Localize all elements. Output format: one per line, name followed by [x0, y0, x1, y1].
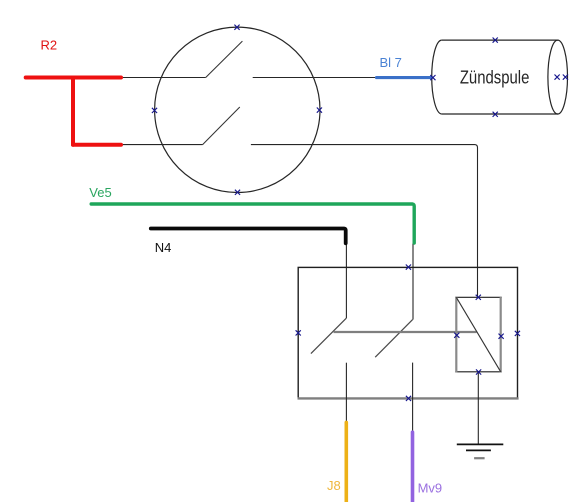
pin marker: relay coil bottom: [476, 369, 481, 374]
Zündspule ignition coil cylinder body top line: [441, 39, 558, 41]
wire R2 (red) vertical: [71, 78, 75, 145]
grey wire from K1 blade to relay coil: [334, 331, 477, 333]
pin marker: coil bottom: [493, 112, 498, 117]
wire bottom row: red R2 lower terminal to ignition-switch lower left contact: [123, 144, 203, 146]
wire Bl7 (blue) to ignition coil: [377, 76, 432, 79]
pin marker: relay box bottom: [406, 396, 411, 401]
pin marker: coil top: [493, 38, 498, 43]
Zündspule cylinder body bottom line: [441, 113, 558, 115]
switch blade lower contact (inside circle, bottom): [203, 107, 240, 145]
pin marker: ignition switch bottom: [235, 190, 240, 195]
wire Ve5 (green) horizontal and corner down: [91, 204, 414, 243]
svg-text:Bl 7: Bl 7: [380, 55, 402, 70]
relay switch K1 bottom contact wire down to J8: [345, 363, 347, 423]
relay switch K2 blade diagonal: [375, 320, 412, 358]
pin marker: relay box top: [406, 265, 411, 270]
pin marker: coil right outer: [563, 75, 568, 80]
wire: vertical from N4 wire down into relay box to switch K1 top contact: [345, 243, 347, 318]
svg-text:Zündspule: Zündspule: [460, 67, 530, 87]
svg-text:N4: N4: [155, 240, 172, 255]
switch blade upper contact (inside circle, top): [206, 41, 243, 77]
wire: relay coil bottom to ground: [477, 372, 479, 445]
pin marker: ignition switch top: [234, 25, 239, 30]
pin marker: relay box left: [296, 330, 301, 335]
relay coil box right grey edge: [500, 297, 502, 373]
relay box bottom grey bus edge: [298, 397, 519, 399]
pin marker: relay coil left: [454, 333, 459, 338]
ground symbol bar 1: [457, 443, 504, 445]
svg-text:Ve5: Ve5: [89, 185, 111, 200]
relay coil box bottom edge: [455, 371, 501, 373]
relay box outline: [298, 267, 517, 398]
pin marker: relay coil right: [499, 334, 504, 339]
wire top row: red R2 terminal to ignition-switch left contact: [123, 77, 206, 79]
relay coil box top edge: [455, 296, 501, 298]
wire R2 (red) bottom horizontal: [73, 143, 121, 147]
svg-text:Mv9: Mv9: [418, 480, 443, 495]
ground symbol bar 3 (grey): [474, 457, 485, 459]
wire: vertical from Ve5 wire down into relay box to switch K2 top contact: [412, 243, 414, 319]
ignition switch S1 circle body: [155, 27, 320, 192]
relay coil box left grey edge: [455, 297, 457, 373]
wire: ignition-switch lower right contact across to relay coil, with corner down: [251, 145, 478, 297]
pin marker: ignition switch right: [317, 108, 322, 113]
wire top row: ignition-switch right contact to blue Bl7 wire: [253, 77, 376, 79]
svg-text:R2: R2: [41, 38, 58, 53]
pin marker: relay coil top: [476, 295, 481, 300]
wire R2 (red) top horizontal: [26, 76, 121, 80]
Zündspule cylinder left end arc: [432, 40, 442, 114]
pin marker: coil left (Bl7 junction): [430, 75, 435, 80]
wire Mv9 (purple): [411, 432, 415, 502]
Zündspule cylinder right end cap ellipse: [548, 40, 568, 114]
relay coil diagonal: [456, 297, 500, 372]
relay switch K1 blade diagonal: [311, 318, 347, 354]
ground symbol bar 2: [466, 449, 491, 451]
svg-text:J8: J8: [327, 478, 341, 493]
relay switch K2 bottom contact wire down to Mv9: [412, 363, 414, 433]
wire J8 (yellow): [344, 422, 348, 502]
pin marker: coil right inner: [555, 75, 560, 80]
wire N4 (black) horizontal with corner down: [151, 229, 346, 244]
pin marker: relay box right: [515, 331, 520, 336]
pin marker: ignition switch left: [152, 108, 157, 113]
